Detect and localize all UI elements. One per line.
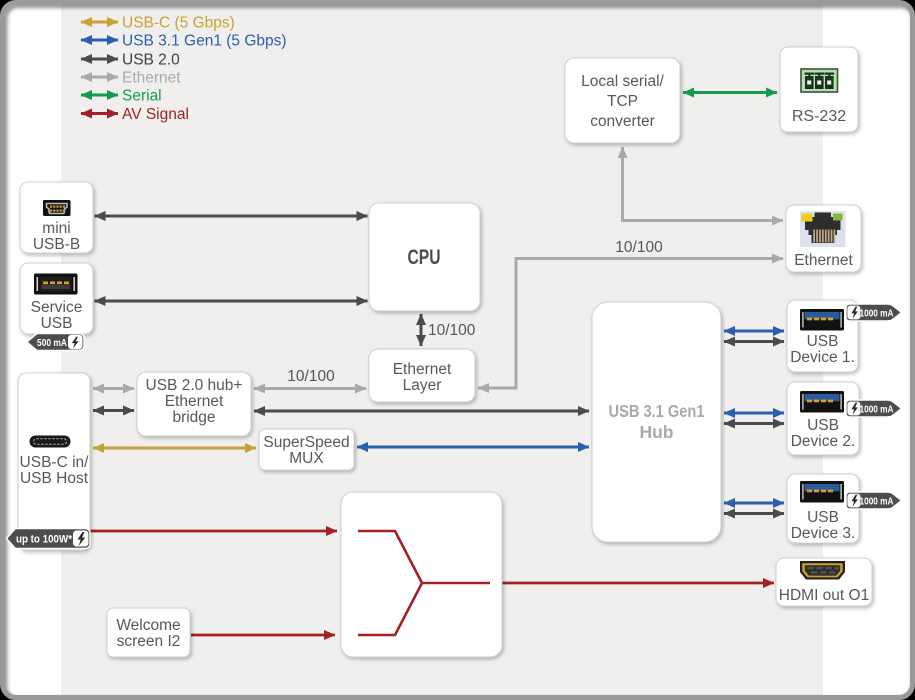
wire USB-C to MUX gold xyxy=(93,447,256,450)
svg-text:USB: USB xyxy=(807,509,839,526)
svg-text:USB: USB xyxy=(41,315,73,332)
wire USB-C AV to mixer xyxy=(90,530,337,533)
wire hub to device2 blue xyxy=(724,412,784,415)
legend arrow Serial xyxy=(81,94,118,97)
box SuperSpeed MUX xyxy=(259,429,354,470)
box CPU xyxy=(369,203,480,311)
svg-text:MUX: MUX xyxy=(289,450,324,467)
tag up to 100W xyxy=(7,529,91,549)
mixer Y path input1 xyxy=(358,531,422,583)
svg-text:AV Signal: AV Signal xyxy=(122,106,189,123)
wire welcome screen to mixer xyxy=(191,634,335,637)
tag 1000 mA device3 xyxy=(846,492,902,509)
svg-text:Ethernet: Ethernet xyxy=(165,393,224,410)
svg-text:10/100: 10/100 xyxy=(615,239,663,256)
wire Service USB to CPU xyxy=(95,300,368,303)
svg-text:HDMI out O1: HDMI out O1 xyxy=(779,587,869,604)
wire mixer to HDMI out xyxy=(502,582,774,585)
svg-text:SuperSpeed: SuperSpeed xyxy=(263,434,349,451)
svg-text:USB-C (5 Gbps): USB-C (5 Gbps) xyxy=(122,15,235,32)
box Welcome screen I2 xyxy=(107,608,190,657)
icon USB-A 3.0 device1 xyxy=(800,309,844,331)
svg-text:Device 1.: Device 1. xyxy=(790,349,855,366)
icon mini USB-B xyxy=(43,200,71,216)
svg-text:Device 3.: Device 3. xyxy=(791,525,856,542)
mixer Y path input2 xyxy=(358,583,422,635)
wire bridge to Ethernet Layer xyxy=(254,387,366,390)
svg-text:mini: mini xyxy=(42,220,70,237)
svg-text:Service: Service xyxy=(31,299,83,316)
wire Ethernet Layer to Ethernet jack elbow xyxy=(478,259,783,389)
wire CPU to Ethernet Layer xyxy=(420,314,423,346)
box USB 2.0 hub Ethernet bridge xyxy=(137,372,251,436)
legend arrow Ethernet xyxy=(81,76,118,79)
svg-text:USB Host: USB Host xyxy=(20,470,89,487)
mixer Y path output xyxy=(421,582,490,585)
svg-text:Ethernet: Ethernet xyxy=(794,252,853,269)
box HDMI out O1 port xyxy=(776,558,872,606)
box USB Device 3 port xyxy=(787,474,859,543)
svg-text:USB 2.0: USB 2.0 xyxy=(122,52,180,69)
tag 1000 mA device2 xyxy=(846,400,902,417)
icon RJ45 jack xyxy=(800,211,846,247)
wire mini USB-B to CPU xyxy=(95,215,368,218)
box USB Device 2 port xyxy=(787,382,859,455)
tag 1000 mA device1 xyxy=(846,304,902,321)
svg-text:Local serial/: Local serial/ xyxy=(581,73,664,90)
svg-text:Serial: Serial xyxy=(122,88,162,105)
icon USB-A service xyxy=(34,274,78,295)
svg-text:TCP: TCP xyxy=(607,93,638,110)
svg-text:10/100: 10/100 xyxy=(287,368,335,385)
svg-text:RS-232: RS-232 xyxy=(792,108,846,125)
svg-text:Device 2.: Device 2. xyxy=(791,433,856,450)
wire converter to Ethernet jack elbow xyxy=(623,147,784,221)
legend arrow USB 3.1 xyxy=(81,39,118,42)
wire hub to device2 usb2 xyxy=(724,422,784,425)
svg-text:USB 3.1 Gen1: USB 3.1 Gen1 xyxy=(609,401,705,421)
box USB 3.1 Gen1 Hub xyxy=(592,302,721,542)
wire MUX to hub blue xyxy=(357,446,589,449)
icon HDMI connector xyxy=(800,561,845,580)
box USB Device 1 port xyxy=(787,300,858,372)
svg-text:USB: USB xyxy=(807,333,839,350)
icon USB-A 3.0 device2 xyxy=(800,391,844,413)
wire USB-C to bridge usb2 xyxy=(93,409,134,412)
svg-text:CPU: CPU xyxy=(408,246,441,269)
box Ethernet port xyxy=(786,205,861,272)
svg-text:500 mA: 500 mA xyxy=(37,337,67,349)
box USB-C in USB Host port xyxy=(18,373,90,550)
tag 500 mA xyxy=(27,334,84,351)
wire hub to device3 usb2 xyxy=(724,512,784,515)
legend arrow USB 2.0 xyxy=(81,58,118,61)
svg-text:Ethernet: Ethernet xyxy=(393,361,452,378)
svg-text:USB-C in/: USB-C in/ xyxy=(20,454,90,471)
icon USB-C xyxy=(30,436,71,448)
svg-text:USB 3.1 Gen1 (5 Gbps): USB 3.1 Gen1 (5 Gbps) xyxy=(122,33,287,50)
box Local serial TCP converter xyxy=(565,58,680,143)
svg-text:10/100: 10/100 xyxy=(428,322,476,339)
svg-text:USB 2.0 hub+: USB 2.0 hub+ xyxy=(146,377,243,394)
box mini USB-B port xyxy=(20,182,93,253)
svg-text:Welcome: Welcome xyxy=(116,617,180,634)
icon USB-A 3.0 device3 xyxy=(800,481,844,503)
box RS-232 port xyxy=(780,47,858,132)
svg-text:bridge: bridge xyxy=(172,409,215,426)
svg-text:screen I2: screen I2 xyxy=(117,633,181,650)
wire converter to RS-232 green xyxy=(683,91,777,94)
box Service USB port xyxy=(20,263,93,334)
svg-text:Layer: Layer xyxy=(403,377,442,394)
svg-text:Hub: Hub xyxy=(639,422,673,442)
wire hub to device3 blue xyxy=(724,502,784,505)
svg-text:Ethernet: Ethernet xyxy=(122,70,181,87)
legend arrow USB-C xyxy=(81,21,118,24)
wire USB-C to bridge ethernet xyxy=(93,387,134,390)
wire hub to device1 usb2 xyxy=(724,340,784,343)
svg-text:USB: USB xyxy=(807,417,839,434)
svg-text:converter: converter xyxy=(590,113,655,130)
box AV mixer xyxy=(341,492,502,657)
legend arrow AV Signal xyxy=(81,112,118,115)
wire bridge to hub xyxy=(254,410,589,413)
icon RS-232 terminal block xyxy=(801,69,838,92)
wire hub to device1 blue xyxy=(724,330,784,333)
box Ethernet Layer xyxy=(369,349,475,402)
svg-text:USB-B: USB-B xyxy=(33,236,80,253)
svg-text:up to 100W*: up to 100W* xyxy=(16,534,73,546)
